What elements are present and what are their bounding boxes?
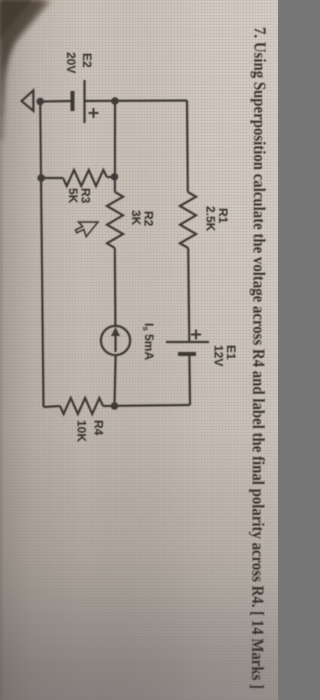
svg-text:7. Using Superposition calcula: 7. Using Superposition calculate the vol…	[248, 27, 270, 689]
wire: R3 branch lower stub	[41, 177, 63, 179]
current source arrow shaft	[114, 334, 116, 352]
svg-text:5K: 5K	[66, 188, 80, 204]
rotated content: natural frame 700x278 mapped onto photo	[22, 27, 270, 689]
cursor arrow	[76, 222, 99, 237]
battery E1 short plate	[178, 352, 196, 356]
wire: top rail mid segment (R1 to E1)	[188, 248, 189, 342]
node A dot: bottom-left corner	[36, 98, 44, 106]
svg-text:2.5K: 2.5K	[204, 206, 218, 232]
resistor R2 zigzag	[107, 192, 123, 248]
dark table edge, top-left corner	[0, 0, 52, 140]
battery E2 short plate	[71, 91, 75, 111]
plus sign of E2	[89, 108, 99, 118]
node dot: R3 bottom junction	[37, 174, 45, 182]
battery E2 long plate	[83, 80, 85, 123]
svg-text:3K: 3K	[129, 210, 143, 226]
svg-text:E2: E2	[80, 53, 94, 68]
current source Is circle	[101, 326, 130, 355]
svg-text:10K: 10K	[75, 420, 89, 442]
wire: middle rail segment R2 to current source	[114, 248, 117, 326]
current source arrow head	[111, 327, 120, 336]
wire: left wire lower segment (node A to E2)	[40, 100, 72, 103]
ground arrow below node A	[22, 90, 34, 111]
wire: left wire upper segment (E2 to top-left corner)	[85, 99, 188, 102]
resistor R3 zigzag	[63, 170, 107, 186]
wire: middle rail left segment	[114, 101, 116, 192]
wire: bottom rail	[40, 102, 43, 408]
wire: right wire lower segment	[44, 406, 61, 407]
bottom darkening	[0, 420, 278, 700]
node dot: middle rail meets left wire	[111, 97, 119, 105]
wire: R3 branch upper stub	[107, 176, 115, 179]
node dot: middle rail meets right wire	[111, 402, 119, 410]
svg-text:20V: 20V	[64, 52, 78, 73]
node dot: R3 top junction	[111, 173, 119, 181]
wire: middle rail segment current source to right wire	[115, 355, 116, 406]
wire: right wire upper segment	[103, 405, 190, 406]
wire: top rail right segment (E1 to top-right corner)	[188, 354, 191, 405]
battery E1 long plate	[166, 341, 209, 343]
svg-text:R4: R4	[92, 420, 106, 436]
wire: top rail left segment	[186, 101, 189, 193]
plus sign of E1	[191, 330, 201, 340]
resistor R1 zigzag	[180, 192, 196, 248]
svg-text:12V: 12V	[212, 345, 226, 366]
resistor R4 zigzag	[60, 398, 103, 414]
